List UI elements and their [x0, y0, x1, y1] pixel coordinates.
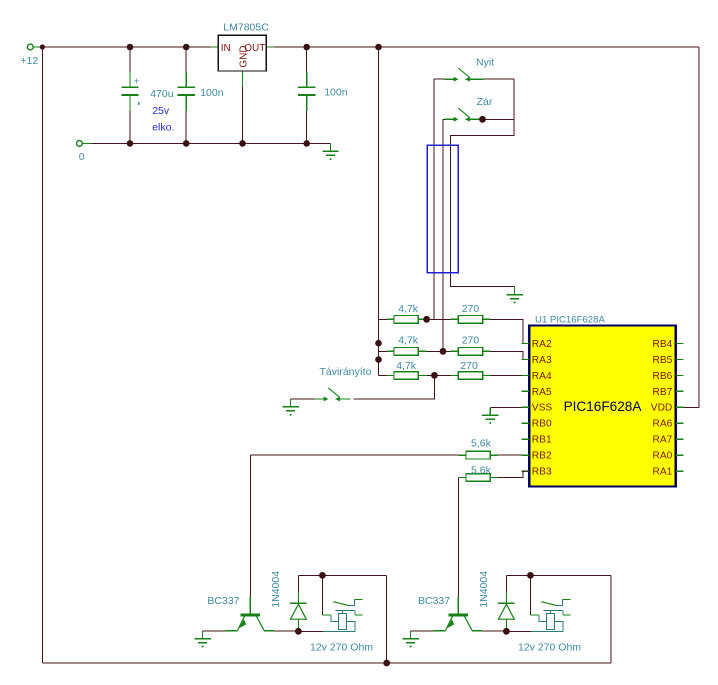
- junction dot row1: [423, 316, 430, 323]
- svg-text:RB3: RB3: [532, 467, 552, 478]
- svg-text:4,7k: 4,7k: [398, 334, 419, 346]
- IC U1 PIC16F628A body: [529, 315, 676, 487]
- wire +12 pull-up rail vertical x=378.5: [378, 47, 380, 375]
- pin RA3 left stub: [522, 355, 552, 366]
- wire 5,6k to RB3: [491, 477, 498, 479]
- transistor Q2 BC337: [418, 595, 482, 631]
- svg-text:270: 270: [462, 335, 480, 347]
- svg-text:Távirányíto: Távirányíto: [320, 366, 372, 378]
- svg-text:Zár: Zár: [477, 96, 493, 108]
- wire Zár right: [483, 118, 515, 120]
- svg-text:RB6: RB6: [652, 371, 672, 382]
- resistor R1 4,7k: [394, 303, 419, 323]
- junction dots block 1: [295, 572, 326, 635]
- wire relay coil drop block 1: [321, 575, 323, 615]
- wire row3 left lead: [379, 374, 388, 376]
- wire relay coil drop block 2: [529, 575, 531, 615]
- wire +12 top rail: [40, 46, 211, 48]
- relay K1 12v 270 Ohm: [310, 600, 373, 654]
- wire Nyit left to connector: [434, 79, 445, 319]
- ground at VSS: [482, 407, 498, 424]
- svg-text:BC337: BC337: [418, 595, 450, 607]
- svg-text:RB2: RB2: [532, 451, 552, 462]
- pin RA2 left stub: [522, 339, 552, 350]
- wire row1 right lead to PIC: [483, 318, 491, 320]
- svg-text:RA2: RA2: [532, 339, 552, 350]
- pin RB6 right stub: [652, 371, 683, 382]
- pin RB0 left stub: [522, 419, 552, 430]
- ground near connector: [506, 287, 522, 304]
- svg-text:RA4: RA4: [532, 371, 552, 382]
- pin RB2 left stub: [522, 451, 552, 462]
- junction dot row3: [431, 372, 438, 379]
- wire +12 left vertical rail: [41, 47, 43, 663]
- diode D2 1N4004: [478, 571, 515, 632]
- switch S3 Távirányíto: [291, 398, 315, 400]
- wire collector Q2: [482, 630, 506, 632]
- svg-text:1N4004: 1N4004: [270, 571, 282, 608]
- ground at Q2 emitter: [402, 631, 418, 648]
- capacitor C2 100n leads and plates: [178, 47, 195, 143]
- wire top rail from regulator OUT to top-right corner: [274, 46, 699, 48]
- junction at +12 corner: [40, 44, 45, 49]
- wire row2 right lead to PIC: [483, 350, 491, 352]
- pin RA4 left stub: [522, 371, 552, 382]
- svg-text:4,7k: 4,7k: [398, 303, 419, 315]
- diode D1 1N4004: [270, 571, 307, 632]
- wire RB3 net left lead: [458, 477, 466, 479]
- ground at Távirányíto switch: [282, 399, 298, 416]
- svg-text:U1 PIC16F628A: U1 PIC16F628A: [535, 315, 605, 326]
- svg-text:+12: +12: [20, 55, 38, 67]
- svg-text:LM7805C: LM7805C: [223, 22, 269, 34]
- pin RA5 left stub: [522, 387, 552, 398]
- regulator U2 LM7805C: [211, 22, 274, 144]
- svg-text:GND: GND: [239, 45, 250, 67]
- switch S3 Távirányíto contacts: [315, 388, 351, 402]
- resistor R5 270: [458, 335, 482, 356]
- svg-text:RB7: RB7: [652, 387, 672, 398]
- resistor R6 270: [458, 360, 482, 379]
- switch S2 Zár contacts: [445, 108, 483, 122]
- resistor R8 5,6k: [466, 464, 492, 481]
- relay K2 12v 270 Ohm: [518, 600, 581, 654]
- wire VDD to right vertical: [683, 406, 699, 408]
- pin RB1 left stub: [522, 435, 552, 446]
- svg-text:RB4: RB4: [652, 339, 672, 350]
- pin VDD right stub: [651, 403, 684, 414]
- svg-text:470u: 470u: [150, 88, 174, 100]
- wire row2 left lead: [379, 350, 388, 352]
- ground at Q1 emitter: [194, 631, 210, 648]
- wire +12 bottom rail: [42, 662, 611, 664]
- wire collector to relay bottom block 1: [298, 630, 322, 632]
- wire row3 right lead to PIC: [483, 374, 491, 376]
- junction dots on +12 rail: [127, 44, 382, 51]
- svg-text:25v: 25v: [152, 105, 170, 117]
- svg-text:RA0: RA0: [652, 451, 672, 462]
- svg-text:+: +: [133, 76, 139, 88]
- wire relay top feed block 1: [298, 574, 386, 576]
- svg-text:12v 270 Ohm: 12v 270 Ohm: [518, 641, 581, 653]
- svg-text:12v 270 Ohm: 12v 270 Ohm: [310, 641, 373, 653]
- pin RB5 right stub: [652, 355, 683, 366]
- junction dots block 2: [503, 572, 534, 635]
- wire VSS to ground: [490, 406, 521, 408]
- wire Zár left to connector: [443, 119, 445, 351]
- svg-text:RB5: RB5: [652, 355, 672, 366]
- svg-text:PIC16F628A: PIC16F628A: [564, 399, 643, 414]
- svg-text:270: 270: [460, 360, 478, 372]
- wire RB2 net from base Q1: [250, 454, 458, 456]
- pin VSS left stub: [522, 403, 553, 414]
- pin RA7 right stub: [652, 435, 683, 446]
- svg-text:RA5: RA5: [532, 387, 552, 398]
- svg-text:BC337: BC337: [207, 595, 239, 607]
- svg-text:4,7k: 4,7k: [396, 360, 417, 372]
- svg-text:5,6k: 5,6k: [471, 464, 492, 476]
- svg-text:elko.: elko.: [152, 121, 174, 133]
- pin RB3 left stub: [522, 467, 552, 478]
- junction dot row2: [440, 348, 447, 355]
- svg-text:IN: IN: [221, 43, 231, 54]
- junction at Zár output: [479, 116, 486, 123]
- svg-text:RA6: RA6: [652, 419, 672, 430]
- wire emitter Q1 to ground: [203, 630, 225, 632]
- wire from Távirányíto up to row3: [354, 375, 435, 399]
- svg-text:270: 270: [462, 303, 480, 315]
- wire 5,6k to RB2: [491, 454, 498, 456]
- wire row1 middle: [418, 318, 426, 320]
- wire row1 left lead: [379, 318, 388, 320]
- node 0 terminal: [77, 141, 92, 164]
- svg-text:0: 0: [79, 151, 85, 163]
- wire base vertical Q1: [249, 455, 251, 597]
- pin RA0 right stub: [652, 451, 683, 462]
- node +12 terminal: [20, 44, 40, 67]
- pin RA6 right stub: [652, 419, 683, 430]
- wire top-right vertical down to VDD: [698, 47, 700, 407]
- capacitor C1 470u 25v elko leads and plates: [121, 47, 138, 143]
- svg-text:RA1: RA1: [652, 467, 672, 478]
- junction bottom rail: [383, 660, 390, 667]
- wire 0V rail: [91, 142, 330, 144]
- wire collector Q1: [274, 630, 298, 632]
- wire Nyit right side: [450, 79, 514, 287]
- ground at 0V rail: [322, 143, 338, 160]
- pin RB4 right stub: [652, 339, 683, 350]
- wire collector to relay bottom block 2: [506, 630, 530, 632]
- resistor R4 270: [458, 303, 482, 323]
- resistor R2 4,7k: [394, 334, 419, 355]
- junction dots on 0V rail: [127, 140, 310, 147]
- resistor R7 5,6k: [466, 437, 492, 459]
- wire emitter Q2 to ground: [411, 630, 433, 632]
- svg-text:100n: 100n: [324, 86, 348, 98]
- svg-text:100n: 100n: [200, 87, 224, 99]
- svg-text:1N4004: 1N4004: [478, 571, 490, 608]
- capacitor C3 100n leads and plates: [298, 47, 315, 143]
- wire row2 middle: [418, 350, 426, 352]
- resistor R3 4,7k: [394, 360, 418, 379]
- junction dots on pull-up rail: [375, 340, 382, 363]
- pin RA1 right stub: [652, 467, 683, 478]
- pin RB7 right stub: [652, 387, 683, 398]
- svg-text:VSS: VSS: [532, 403, 553, 414]
- wire right vertical to +12 rail block 2: [610, 575, 612, 663]
- svg-text:RA3: RA3: [532, 355, 552, 366]
- switch S1 Nyit contacts: [445, 68, 484, 82]
- svg-text:VDD: VDD: [651, 403, 673, 414]
- wire right vertical to +12 rail block 1: [386, 575, 388, 663]
- wire row3 middle: [418, 374, 426, 376]
- wire base vertical Q2: [457, 478, 459, 597]
- wire relay top feed block 2: [506, 574, 611, 576]
- svg-text:Nyit: Nyit: [476, 57, 494, 69]
- connector J1: [427, 145, 458, 272]
- svg-text:RA7: RA7: [652, 435, 672, 446]
- transistor Q1 BC337: [207, 595, 274, 631]
- svg-text:RB0: RB0: [532, 419, 552, 430]
- svg-text:RB1: RB1: [532, 435, 552, 446]
- svg-text:5,6k: 5,6k: [471, 437, 492, 449]
